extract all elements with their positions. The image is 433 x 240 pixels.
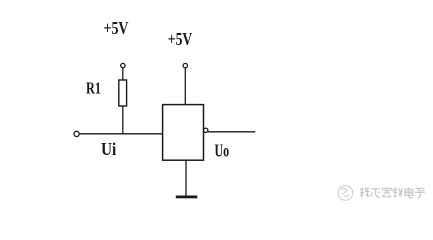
svg-text:+5V: +5V [104, 18, 129, 38]
svg-text:Ui: Ui [101, 139, 116, 159]
svg-text:R1: R1 [86, 79, 101, 98]
svg-text:Uo: Uo [215, 141, 230, 161]
svg-text:+5V: +5V [168, 29, 193, 49]
